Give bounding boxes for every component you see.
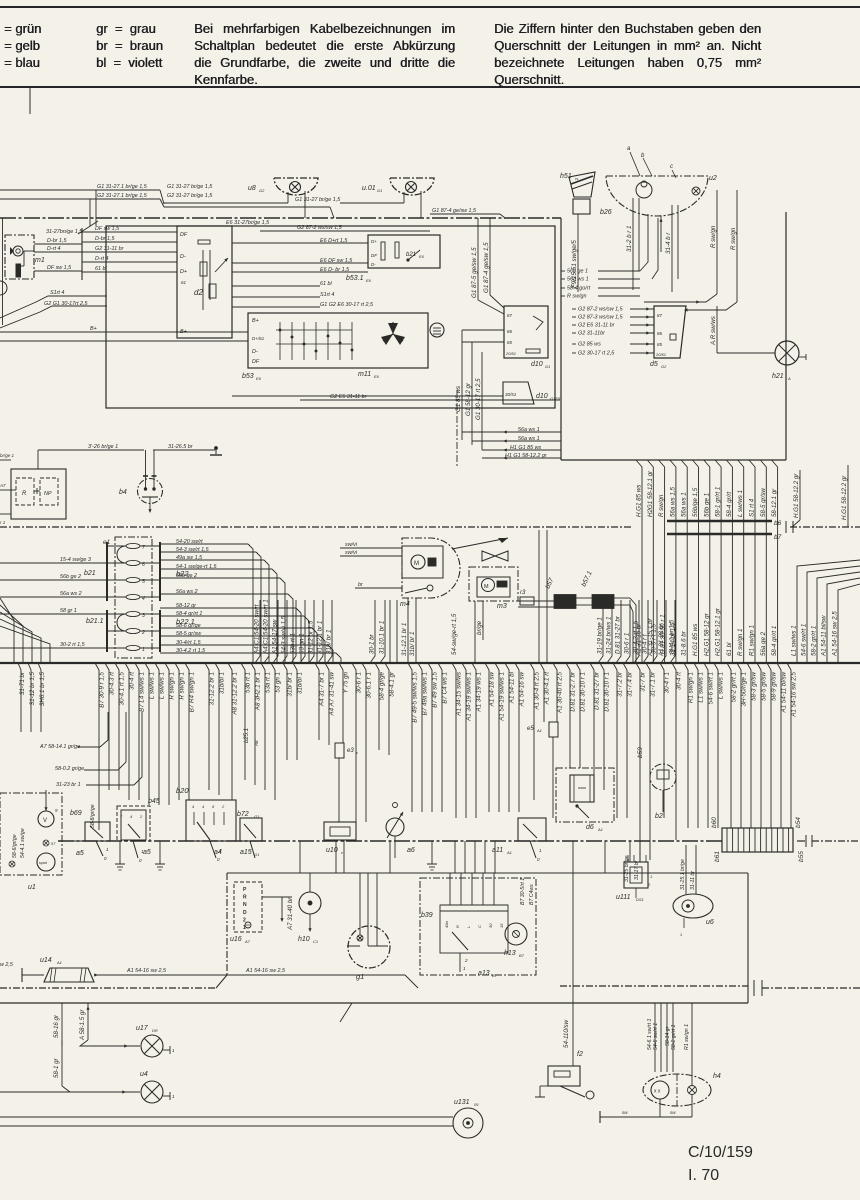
svg-text:56b/ge 1,5: 56b/ge 1,5: [692, 487, 699, 517]
svg-text:30-1 br: 30-1 br: [369, 633, 376, 654]
svg-text:u2: u2: [709, 175, 717, 182]
svg-text:H2.G1 58-12.1 gr: H2.G1 58-12.1 gr: [715, 607, 722, 656]
svg-text:B7 R4 sw/gn 1: B7 R4 sw/gn 1: [189, 672, 196, 712]
svg-text:H1 G1 85 ws: H1 G1 85 ws: [510, 445, 541, 451]
svg-text:spart: spart: [39, 861, 47, 865]
svg-text:56a ws 1: 56a ws 1: [681, 492, 688, 517]
svg-text:58-12.1 gr: 58-12.1 gr: [771, 488, 778, 517]
svg-text:A4 A7 31-41 sw: A4 A7 31-41 sw: [329, 671, 336, 716]
svg-text:A1 54-16 sw: A1 54-16 sw: [519, 671, 526, 707]
svg-text:61 bl: 61 bl: [320, 281, 332, 287]
svg-text:h10: h10: [298, 936, 310, 943]
svg-text:3H4.1 br 1,5: 3H4.1 br 1,5: [669, 619, 676, 654]
svg-text:15-4 sw/ge 3: 15-4 sw/ge 3: [60, 557, 91, 563]
svg-text:30-4.3 rt: 30-4.3 rt: [109, 672, 116, 695]
svg-text:H.G1 58-12.2 gr: H.G1 58-12.2 gr: [793, 473, 800, 518]
svg-text:30-6.1 r 1: 30-6.1 r 1: [366, 672, 373, 698]
svg-text:u1: u1: [28, 884, 36, 891]
svg-text:sw/vi: sw/vi: [345, 542, 358, 548]
svg-text:sw: sw: [670, 1110, 676, 1115]
svg-text:86: 86: [507, 329, 513, 334]
svg-text:A: A: [787, 376, 791, 381]
svg-text:56a ge 2: 56a ge 2: [760, 631, 767, 656]
svg-text:H.G1 85 ws: H.G1 85 ws: [692, 624, 699, 656]
svg-text:A1 54-17 sw: A1 54-17 sw: [272, 619, 279, 655]
svg-text:1: 1: [650, 874, 652, 879]
svg-text:31-4 b r: 31-4 b r: [665, 232, 672, 254]
svg-text:b72: b72: [237, 811, 249, 818]
svg-text:D-br 1,5: D-br 1,5: [47, 238, 67, 244]
svg-text:A8 3H2.1 br 1: A8 3H2.1 br 1: [255, 672, 262, 711]
svg-text:b21: b21: [84, 570, 96, 577]
svg-text:G2 E6 31-11 br: G2 E6 31-11 br: [578, 323, 615, 329]
svg-text:30-4 r t: 30-4 r t: [642, 634, 649, 654]
svg-text:31-7 br: 31-7 br: [640, 671, 647, 692]
svg-text:b22: b22: [176, 569, 189, 578]
svg-text:sw: sw: [622, 1110, 628, 1115]
svg-text:G1 87-4 ge/sw 1,5: G1 87-4 ge/sw 1,5: [483, 242, 490, 293]
svg-text:58-2 gr/rt 1: 58-2 gr/rt 1: [811, 626, 818, 656]
svg-text:R: R: [455, 925, 460, 928]
svg-text:58-4 gr/rt 1: 58-4 gr/rt 1: [771, 626, 778, 656]
svg-text:L: L: [466, 926, 471, 928]
svg-text:2: 2: [221, 804, 225, 809]
svg-text:D-: D-: [371, 262, 376, 267]
svg-text:a11: a11: [492, 847, 503, 854]
svg-text:0: 0: [648, 882, 651, 887]
svg-text:I. 70: I. 70: [688, 1167, 719, 1184]
svg-text:30-4 rt: 30-4 rt: [676, 672, 683, 690]
svg-text:a: a: [627, 146, 631, 152]
svg-text:B+: B+: [180, 329, 187, 335]
svg-text:61 bl: 61 bl: [95, 266, 107, 272]
svg-text:E6 31-27br/ge 1,5: E6 31-27br/ge 1,5: [226, 220, 270, 226]
svg-text:Y 75 gn: Y 75 gn: [343, 671, 350, 693]
svg-text:b6: b6: [774, 520, 782, 527]
svg-text:G2 31-27 br/ge 1,5: G2 31-27 br/ge 1,5: [167, 193, 213, 199]
svg-text:b4: b4: [119, 489, 127, 496]
svg-text:b57.1: b57.1: [580, 570, 593, 588]
svg-text:A1 34-15 sw/ws: A1 34-15 sw/ws: [456, 672, 463, 717]
svg-text:3'-26 br/ge 1: 3'-26 br/ge 1: [88, 444, 118, 450]
svg-text:31b/ br 1: 31b/ br 1: [287, 672, 294, 696]
svg-text:DF sw 1,5: DF sw 1,5: [47, 265, 72, 271]
svg-text:H.G1 58-12.2 gr: H.G1 58-12.2 gr: [841, 475, 848, 520]
svg-text:56a ws 2: 56a ws 2: [60, 591, 82, 597]
svg-text:G2 87-3 ws/sw 1,5: G2 87-3 ws/sw 1,5: [578, 315, 624, 321]
svg-text:u16: u16: [230, 936, 242, 943]
svg-text:a5: a5: [143, 849, 151, 856]
svg-text:53a rt 1: 53a rt 1: [265, 672, 272, 693]
svg-text:b21.1: b21.1: [86, 618, 104, 625]
svg-text:A4 C1 54-20 sw/rt 1: A4 C1 54-20 sw/rt 1: [263, 599, 270, 655]
svg-text:31-17 br: 31-17 br: [634, 860, 640, 880]
svg-text:58-4 go/rt: 58-4 go/rt: [567, 286, 591, 292]
svg-text:D-rt 4: D-rt 4: [47, 246, 60, 252]
svg-text:30: 30: [488, 923, 493, 928]
svg-text:30-6 r 1: 30-6 r 1: [624, 633, 631, 654]
svg-text:G1 31-27.1 br/ge 1,5: G1 31-27.1 br/ge 1,5: [97, 184, 148, 190]
svg-text:b60: b60: [711, 817, 718, 828]
svg-text:br/ge 1: br/ge 1: [0, 453, 15, 458]
svg-text:A7: A7: [244, 939, 251, 944]
svg-text:2: 2: [139, 814, 143, 819]
svg-text:DF sw 1,5: DF sw 1,5: [95, 226, 120, 232]
svg-text:br/ge: br/ge: [476, 620, 483, 635]
svg-text:58 gr 1: 58 gr 1: [60, 608, 77, 614]
svg-text:m11: m11: [358, 371, 371, 378]
svg-text:b53.1: b53.1: [346, 275, 364, 282]
svg-text:30-6 r 1: 30-6 r 1: [356, 672, 363, 693]
svg-text:u.01: u.01: [362, 185, 376, 192]
svg-text:31-19 br/ge 1: 31-19 br/ge 1: [597, 617, 604, 654]
svg-text:b20: b20: [176, 786, 189, 795]
svg-text:30-4 r 1: 30-4 r 1: [664, 672, 671, 693]
svg-text:B7 49a sw/ws 1: B7 49a sw/ws 1: [422, 672, 429, 715]
svg-text:R sw/gn: R sw/gn: [658, 494, 665, 517]
svg-text:D+: D+: [180, 269, 187, 275]
svg-text:1: 1: [172, 1094, 175, 1099]
svg-text:6: 6: [212, 804, 215, 809]
svg-text:b53: b53: [242, 373, 254, 380]
svg-text:A1 54-18 sw: A1 54-18 sw: [489, 671, 496, 707]
svg-text:A1 30-4 rt 2,5: A1 30-4 rt 2,5: [534, 671, 541, 710]
svg-text:B7: B7: [492, 973, 498, 978]
svg-text:A1: A1: [536, 728, 542, 733]
svg-text:N: N: [243, 902, 247, 908]
svg-text:u14: u14: [40, 957, 52, 964]
svg-text:R1 sw/gn 1: R1 sw/gn 1: [688, 672, 695, 703]
svg-text:58-16 gr: 58-16 gr: [53, 1014, 60, 1038]
svg-text:D+: D+: [371, 239, 377, 244]
svg-text:A1 54-16 sw 2,5: A1 54-16 sw 2,5: [126, 968, 167, 974]
svg-text:31-27bn/ge 1,5: 31-27bn/ge 1,5: [46, 229, 83, 235]
svg-text:G2 87-2 ws/sw 1,5: G2 87-2 ws/sw 1,5: [297, 225, 343, 231]
svg-text:b39: b39: [421, 912, 433, 919]
svg-text:A1 54-11 bl: A1 54-11 bl: [509, 671, 516, 704]
svg-text:G2: G2: [259, 188, 265, 193]
svg-text:56b ge 2: 56b ge 2: [60, 574, 81, 580]
svg-text:58-4 gr/rt: 58-4 gr/rt: [726, 492, 733, 517]
svg-text:H.G1 85 ws: H.G1 85 ws: [636, 485, 643, 517]
svg-text:56a ws 1,5: 56a ws 1,5: [669, 487, 676, 517]
svg-text:m1: m1: [35, 257, 45, 264]
svg-text:a13: a13: [478, 970, 490, 977]
svg-text:53b rt 1: 53b rt 1: [290, 633, 297, 654]
svg-text:A4 31-7 br 1: A4 31-7 br 1: [319, 672, 326, 707]
svg-text:r3: r3: [520, 590, 526, 596]
svg-text:53 gn 1: 53 gn 1: [275, 672, 282, 693]
svg-text:54-6 sw/rt 1: 54-6 sw/rt 1: [708, 672, 715, 704]
svg-text:D.81 31-2.7 br: D.81 31-2.7 br: [570, 671, 577, 711]
svg-text:u6: u6: [706, 919, 714, 926]
svg-text:G1 87-4 ge/sw 1,5: G1 87-4 ge/sw 1,5: [432, 208, 477, 214]
svg-text:A1 34-19 ws 1: A1 34-19 ws 1: [476, 672, 483, 713]
svg-text:31-12 br 1,5: 31-12 br 1,5: [29, 671, 36, 705]
svg-text:R sw/gn: R sw/gn: [710, 225, 717, 248]
svg-text:B7 49-5 sw/ws 1,5: B7 49-5 sw/ws 1,5: [412, 671, 419, 722]
svg-text:A1 54-16 sw 2,5: A1 54-16 sw 2,5: [832, 611, 839, 657]
svg-text:M: M: [484, 584, 489, 590]
svg-text:C: C: [477, 925, 482, 928]
svg-text:31-12.2 br 1: 31-12.2 br 1: [209, 672, 216, 705]
svg-text:d10: d10: [536, 393, 548, 400]
svg-text:53 gn 1: 53 gn 1: [299, 633, 306, 654]
svg-text:4: 4: [130, 814, 133, 819]
svg-text:h21: h21: [772, 373, 784, 380]
svg-text:30-4.1 rt 1,5: 30-4.1 rt 1,5: [119, 671, 126, 705]
svg-text:0: 0: [537, 857, 540, 862]
svg-text:30-4.2 rt 1,5: 30-4.2 rt 1,5: [633, 620, 640, 654]
svg-text:rs: rs: [575, 176, 578, 181]
svg-text:31-25 br/ge: 31-25 br/ge: [624, 855, 630, 882]
svg-text:G2 87-2 ws/sw 1,5: G2 87-2 ws/sw 1,5: [578, 307, 624, 313]
svg-text:85: 85: [507, 340, 513, 345]
svg-text:R: R: [243, 895, 247, 901]
svg-text:31-8.6 br: 31-8.6 br: [681, 630, 688, 656]
svg-text:DF: DF: [180, 232, 188, 238]
svg-text:E6: E6: [419, 254, 425, 259]
svg-text:B7 30-9 r 1,5: B7 30-9 r 1,5: [99, 671, 106, 707]
svg-text:B7 30-5/rt 1: B7 30-5/rt 1: [520, 878, 526, 905]
svg-text:b26: b26: [600, 209, 612, 216]
svg-text:G2 31-27.1 br/ge 1,5: G2 31-27.1 br/ge 1,5: [97, 193, 148, 199]
svg-text:05: 05: [474, 1102, 479, 1107]
svg-text:A8 31-12.2 br 1: A8 31-12.2 br 1: [232, 672, 239, 716]
svg-text:31-2 b r 1: 31-2 b r 1: [626, 226, 633, 252]
svg-text:B7: B7: [519, 953, 525, 958]
svg-text:58-5 gr/sw: 58-5 gr/sw: [760, 488, 767, 517]
svg-text:58-5 gr/sw: 58-5 gr/sw: [761, 671, 768, 700]
svg-text:g1: g1: [356, 972, 364, 981]
svg-text:L sw/ws 1: L sw/ws 1: [159, 672, 166, 699]
svg-text:56a ws 1: 56a ws 1: [518, 436, 540, 442]
svg-text:L sw/ws 1: L sw/ws 1: [737, 490, 744, 517]
svg-text:31-7.1 br: 31-7.1 br: [650, 671, 657, 697]
svg-text:D.81 30-10 r 1: D.81 30-10 r 1: [604, 672, 611, 712]
svg-text:G1: G1: [545, 364, 550, 369]
svg-text:P: P: [243, 887, 247, 893]
svg-text:87: 87: [657, 313, 663, 318]
svg-text:87: 87: [507, 313, 513, 318]
svg-text:31-12 br 1,5: 31-12 br 1,5: [308, 620, 315, 654]
svg-text:58-1 gr/rt 1: 58-1 gr/rt 1: [715, 487, 722, 517]
svg-text:58-8/gr/ge: 58-8/gr/ge: [90, 804, 96, 828]
svg-text:br: br: [358, 582, 363, 588]
svg-text:C/10/159: C/10/159: [688, 1144, 753, 1161]
svg-text:54-sw/ge-rt 1,5: 54-sw/ge-rt 1,5: [451, 613, 458, 655]
svg-text:A7 31-40 br: A7 31-40 br: [287, 897, 294, 931]
svg-text:A1 54-11 bl/sw: A1 54-11 bl/sw: [821, 615, 828, 657]
svg-text:G1 31-27 br/ge 1,5: G1 31-27 br/ge 1,5: [167, 184, 213, 190]
svg-text:31b/bl 1: 31b/bl 1: [219, 672, 226, 694]
svg-text:D-rt 4: D-rt 4: [95, 256, 108, 262]
svg-text:R sw/gn: R sw/gn: [730, 227, 737, 250]
svg-text:G2 E6 31-11 br: G2 E6 31-11 br: [330, 394, 367, 400]
svg-text:4: 4: [192, 804, 195, 809]
svg-text:D.81 30-10 r 1: D.81 30-10 r 1: [580, 672, 587, 712]
svg-text:R sw/gn 1: R sw/gn 1: [169, 672, 176, 700]
svg-text:A1 34-19 sw/ws 1: A1 34-19 sw/ws 1: [466, 672, 473, 722]
svg-text:56a ws 1: 56a ws 1: [567, 277, 589, 283]
svg-text:v: v: [356, 750, 359, 755]
svg-text:7: 7: [120, 814, 123, 819]
svg-text:D+/61: D+/61: [252, 336, 265, 341]
svg-text:B7 C4 ws 1: B7 C4 ws 1: [442, 672, 449, 704]
svg-text:D.81 31-27 br: D.81 31-27 br: [615, 615, 622, 654]
svg-text:A1: A1: [56, 960, 62, 965]
svg-text:b59: b59: [637, 747, 644, 758]
svg-text:54-6 sw/rt 1: 54-6 sw/rt 1: [653, 1023, 659, 1050]
svg-text:a6: a6: [407, 847, 415, 854]
svg-text:R: R: [22, 491, 27, 497]
svg-text:d5: d5: [650, 361, 658, 368]
svg-text:G1: G1: [254, 852, 259, 857]
svg-text:D-: D-: [252, 349, 258, 355]
svg-text:b21: b21: [406, 252, 416, 258]
svg-text:u111: u111: [616, 894, 631, 901]
svg-text:E6: E6: [374, 374, 380, 379]
svg-text:G1 G2 E6 30-17 rt 2,5: G1 G2 E6 30-17 rt 2,5: [320, 302, 374, 308]
svg-text:56b ge 1: 56b ge 1: [703, 493, 710, 517]
svg-text:G2 30-17 rt 2,5: G2 30-17 rt 2,5: [578, 351, 615, 357]
svg-text:f2: f2: [577, 1051, 583, 1058]
svg-text:58-2 gr/rt 1: 58-2 gr/rt 1: [731, 672, 738, 702]
svg-text:G1 31-27 br/ge 1,5: G1 31-27 br/ge 1,5: [295, 197, 341, 203]
svg-text:2: 2: [464, 958, 468, 963]
svg-text:20/51: 20/51: [505, 351, 516, 356]
svg-text:30-2 rt 1,5: 30-2 rt 1,5: [60, 642, 86, 648]
svg-text:4: 4: [202, 804, 205, 809]
svg-text:G1 87-5 ge/sw 1,5: G1 87-5 ge/sw 1,5: [471, 247, 478, 298]
svg-text:30-4 rt: 30-4 rt: [129, 672, 136, 690]
svg-text:31-7.4 br: 31-7.4 br: [627, 671, 634, 697]
svg-text:b25.1: b25.1: [244, 728, 250, 743]
svg-text:0: 0: [217, 857, 220, 862]
svg-text:54-6 sw/rt 1: 54-6 sw/rt 1: [801, 624, 808, 656]
svg-text:b61: b61: [714, 851, 721, 862]
svg-text:u17: u17: [136, 1025, 149, 1032]
svg-text:31-11 br: 31-11 br: [690, 871, 696, 890]
svg-text:sw/vi: sw/vi: [345, 550, 358, 556]
svg-text:S1 rt 4: S1 rt 4: [749, 498, 756, 517]
svg-text:G1 85 ws: G1 85 ws: [455, 386, 462, 412]
svg-text:D-: D-: [180, 254, 186, 260]
svg-text:a15: a15: [240, 849, 252, 856]
svg-text:58-6/gr/ge: 58-6/gr/ge: [12, 834, 18, 858]
svg-text:R1 sw/gn 1: R1 sw/gn 1: [684, 1024, 690, 1050]
svg-text:M: M: [414, 561, 419, 567]
svg-text:53b rt 1: 53b rt 1: [245, 672, 252, 693]
svg-text:DR: DR: [152, 1028, 158, 1033]
svg-text:u8: u8: [248, 185, 256, 192]
svg-text:3H-50/r/ge 1: 3H-50/r/ge 1: [741, 672, 748, 706]
svg-text:A8: A8: [254, 740, 259, 747]
svg-text:A1 30-4.1 rt: A1 30-4.1 rt: [544, 672, 551, 706]
svg-text:D-br 1,5: D-br 1,5: [95, 236, 115, 242]
svg-text:H1 G1 58-12.2 gr: H1 G1 58-12.2 gr: [505, 453, 547, 459]
svg-text:b69: b69: [70, 810, 82, 817]
svg-text:58-1 gr: 58-1 gr: [53, 1057, 60, 1078]
svg-text:30/51: 30/51: [505, 392, 517, 397]
svg-text:b22.1: b22.1: [176, 617, 195, 626]
svg-text:B7 C4ws: B7 C4ws: [529, 884, 535, 905]
svg-text:L sw/ws 1: L sw/ws 1: [149, 672, 156, 699]
svg-text:r 1: r 1: [0, 520, 6, 525]
svg-text:D.81 30-50 r 1: D.81 30-50 r 1: [660, 614, 667, 654]
svg-text:30-5 r t 1,5: 30-5 r t 1,5: [651, 624, 658, 654]
svg-text:2: 2: [243, 917, 246, 923]
svg-text:A1 54-16 sw 2,5: A1 54-16 sw 2,5: [245, 968, 286, 974]
svg-text:3H6.1 br 1,5: 3H6.1 br 1,5: [39, 671, 46, 706]
svg-text:u131: u131: [454, 1099, 470, 1106]
svg-text:G1: G1: [377, 188, 382, 193]
svg-text:85: 85: [657, 342, 663, 347]
svg-text:31-7.2 br: 31-7.2 br: [617, 671, 624, 697]
svg-text:a5: a5: [76, 850, 84, 857]
svg-text:A 58-1.5 gr: A 58-1.5 gr: [79, 1009, 86, 1041]
svg-text:h13: h13: [504, 950, 516, 957]
svg-text:B7 49 sw 1,5: B7 49 sw 1,5: [432, 671, 439, 707]
svg-text:d2: d2: [194, 288, 203, 297]
svg-text:20/51: 20/51: [655, 352, 666, 357]
svg-text:31-71 br: 31-71 br: [19, 671, 26, 695]
svg-text:G1 58-12 gr: G1 58-12 gr: [465, 382, 472, 416]
svg-text:E6: E6: [256, 376, 262, 381]
svg-text:R sw/gn: R sw/gn: [567, 294, 586, 300]
svg-text:58-4.1 gr: 58-4.1 gr: [389, 671, 396, 697]
svg-text:b: b: [641, 153, 645, 159]
svg-text:54-110/sw: 54-110/sw: [563, 1019, 570, 1048]
svg-text:L1 sw/ws 1: L1 sw/ws 1: [791, 625, 798, 656]
svg-text:31-12.1 br 1: 31-12.1 br 1: [401, 623, 408, 656]
svg-text:31-12.1 br 1: 31-12.1 br 1: [317, 621, 324, 654]
svg-text:D: D: [243, 910, 247, 916]
svg-text:b55: b55: [798, 851, 805, 862]
svg-text:b45: b45: [148, 798, 160, 805]
svg-text:DS1: DS1: [636, 897, 644, 902]
svg-text:0: 0: [104, 856, 107, 861]
svg-text:G2 85 ws: G2 85 ws: [578, 342, 601, 348]
svg-text:A1: A1: [506, 850, 512, 855]
svg-text:57: 57: [51, 841, 56, 846]
svg-text:L sw/ws 1: L sw/ws 1: [718, 672, 725, 699]
svg-text:31-10.1 br 1: 31-10.1 br 1: [379, 621, 386, 654]
svg-text:G1 30-17 rt 2,5: G1 30-17 rt 2,5: [475, 378, 482, 420]
svg-text:A7: A7: [0, 483, 6, 488]
svg-text:h51: h51: [560, 173, 572, 180]
svg-text:31-25.1 br/ge: 31-25.1 br/ge: [680, 859, 686, 890]
svg-text:e5: e5: [527, 726, 534, 732]
svg-text:A1: A1: [597, 827, 603, 832]
svg-text:B7 L4 sw/ws 1: B7 L4 sw/ws 1: [139, 672, 146, 712]
svg-text:NP: NP: [44, 491, 52, 497]
svg-text:m3: m3: [497, 603, 507, 610]
svg-text:A1 54-16 sw 2,5: A1 54-16 sw 2,5: [791, 671, 798, 717]
svg-text:c: c: [670, 164, 673, 170]
svg-text:49a: 49a: [444, 921, 449, 928]
svg-text:A1 54-19 sw/ws 1: A1 54-19 sw/ws 1: [499, 672, 506, 722]
svg-text:1: 1: [539, 848, 542, 853]
svg-text:B+: B+: [90, 326, 97, 332]
svg-text:b54: b54: [795, 817, 802, 828]
svg-text:15: 15: [499, 923, 504, 928]
svg-text:d10: d10: [531, 361, 543, 368]
svg-text:G2 31-11 br: G2 31-11 br: [95, 246, 124, 252]
svg-text:1: 1: [680, 932, 682, 937]
svg-text:54-3 sw/vi 1,5: 54-3 sw/vi 1,5: [281, 615, 288, 654]
svg-text:61: 61: [181, 280, 187, 285]
